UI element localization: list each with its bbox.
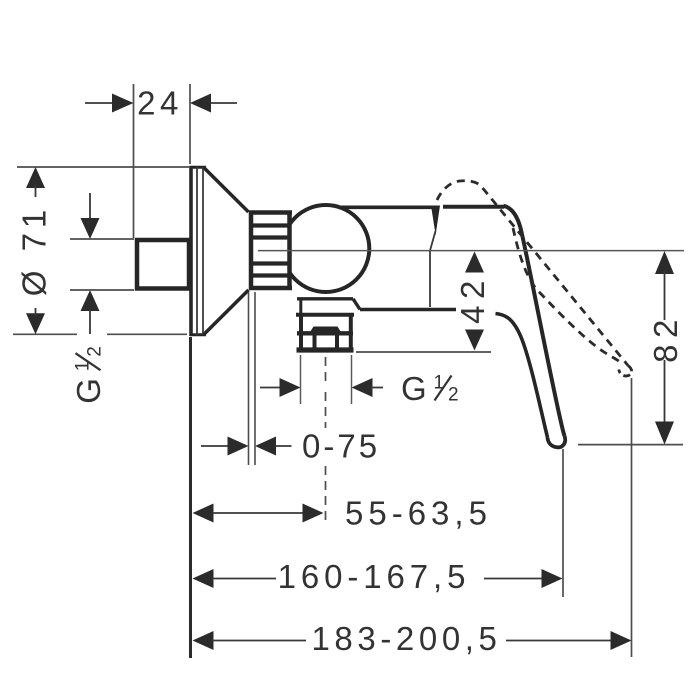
outlet mid rail xyxy=(297,331,353,335)
handle inner (left) edge xyxy=(496,314,548,438)
dim dia71 arrows xyxy=(26,167,45,188)
outlet hex inner flats xyxy=(313,334,317,349)
dim G1/2 left vertical line + arrows xyxy=(89,193,91,220)
wire: solid handle tip extension xyxy=(562,449,564,597)
outlet outer sides below rail xyxy=(299,334,303,349)
wire: G1/2 extension lines xyxy=(300,355,302,404)
dashed handle upper edge (open position) xyxy=(437,181,628,366)
wire: dia71 bottom extension xyxy=(13,333,77,335)
outlet bottom edge xyxy=(297,347,354,352)
svg-text:0-75: 0-75 xyxy=(302,428,380,465)
svg-text:183-200,5: 183-200,5 xyxy=(311,620,501,657)
wire: extension line right of dim 24 xyxy=(189,84,191,164)
handle outer (right) edge xyxy=(504,206,565,436)
svg-text:82: 82 xyxy=(647,313,684,363)
escutcheon cone bottom xyxy=(204,290,249,335)
dashed handle lower edge xyxy=(513,228,619,361)
svg-text:Ø 71: Ø 71 xyxy=(16,205,53,297)
notch wedge at body end xyxy=(431,206,440,236)
svg-text:55-63,5: 55-63,5 xyxy=(345,495,492,532)
escutcheon rim lines xyxy=(196,167,198,335)
label G 1/2 left (rotated) xyxy=(70,346,107,404)
escutcheon cone top xyxy=(204,167,249,212)
svg-text:G: G xyxy=(70,378,107,404)
body bottom chamfer xyxy=(353,299,360,310)
dim 82 xyxy=(655,251,674,274)
wire: G1/2 left bottom extension xyxy=(70,289,134,291)
dim 183-200,5 xyxy=(193,631,214,650)
cartridge dome circle xyxy=(282,205,369,292)
supply pipe block xyxy=(137,240,189,289)
escutcheon top edge xyxy=(190,166,207,169)
dim 42 arrows xyxy=(465,252,484,273)
body top edge xyxy=(338,206,433,210)
dim 0-75 xyxy=(201,445,229,447)
svg-text:24: 24 xyxy=(137,85,183,122)
outlet dashed centerline xyxy=(325,357,327,523)
handle top edge xyxy=(443,205,504,209)
dim 24 arrow right xyxy=(190,94,211,113)
dashed handle tip cap xyxy=(619,366,632,376)
wire: extension line left of dim 24 xyxy=(133,84,135,238)
svg-text:2: 2 xyxy=(85,346,106,357)
wall reference line xyxy=(189,337,192,658)
body underside line xyxy=(360,308,456,311)
wire: 0-75 twin extension lines xyxy=(248,292,250,465)
svg-text:2: 2 xyxy=(448,385,459,406)
wire: G1/2 left top extension xyxy=(70,238,134,240)
centerline horizontal axis xyxy=(258,250,684,252)
wire: dia71 top extension xyxy=(17,166,189,168)
dim 24 line xyxy=(85,102,237,104)
white mask under nut xyxy=(251,215,290,282)
outlet flange top xyxy=(296,313,354,317)
body end contour below notch xyxy=(430,231,436,307)
dim G1/2 bottom xyxy=(260,387,281,389)
escutcheon bottom edge xyxy=(190,333,207,336)
knurled nut xyxy=(249,211,292,291)
label G 1/2 bottom xyxy=(401,370,459,407)
wire: extension at outlet bottom level xyxy=(356,351,491,353)
dim 55-63,5 xyxy=(193,504,214,523)
handle tip cap xyxy=(548,436,566,447)
svg-text:160-167,5: 160-167,5 xyxy=(278,558,471,595)
svg-text:G: G xyxy=(401,370,427,407)
escutcheon left edge xyxy=(189,166,193,336)
wire: handle tip level extension xyxy=(578,444,683,446)
dim 160-167,5 xyxy=(193,569,214,588)
outlet flange sides xyxy=(299,315,303,334)
wire: dashed handle tip extension xyxy=(631,378,633,657)
body bottom edge under circle xyxy=(297,297,353,300)
boss left edge above outlet xyxy=(299,299,302,315)
dim 24 arrow left xyxy=(112,94,134,113)
svg-text:42: 42 xyxy=(454,274,491,324)
outlet hex cap xyxy=(309,327,343,335)
